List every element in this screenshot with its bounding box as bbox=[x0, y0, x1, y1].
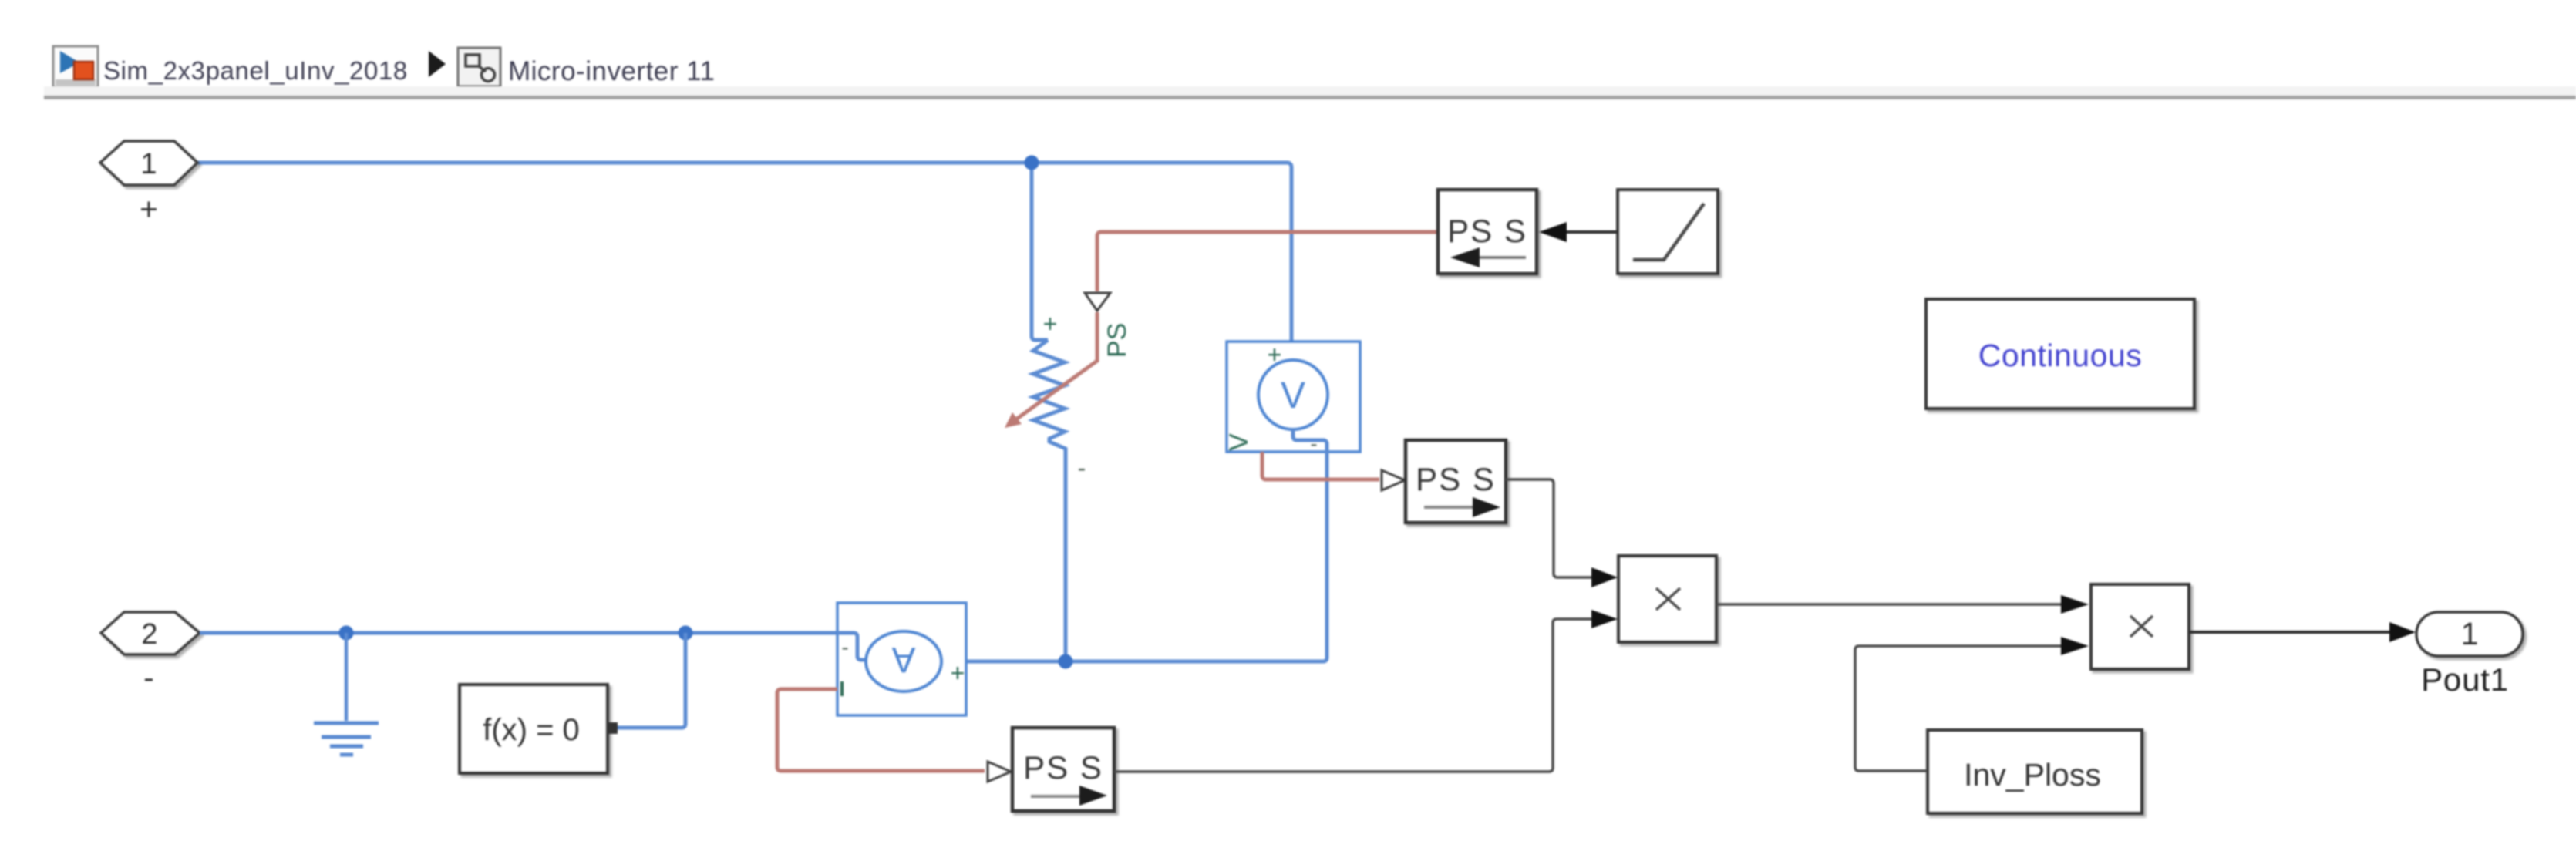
svg-text:-: - bbox=[1078, 454, 1086, 482]
svg-text:V: V bbox=[1224, 433, 1254, 451]
voltage sensor dial bbox=[1258, 360, 1328, 429]
solver block Continuous bbox=[1926, 299, 2194, 409]
wire: I measurement physical signal to PS-S converter 3 (red) bbox=[777, 689, 985, 771]
svg-text:PS: PS bbox=[1103, 323, 1132, 358]
inport 2 bbox=[101, 612, 200, 654]
voltage sensor U1 (block) bbox=[1227, 342, 1360, 452]
resistor R (variable, blue zigzag) bbox=[1033, 340, 1066, 660]
wire: control line into resistor wiper (red diagonal arrow) bbox=[1014, 312, 1097, 421]
wire: sensor - terminal down to bottom net (blue) bbox=[942, 429, 1327, 661]
svg-text:Inv_Ploss: Inv_Ploss bbox=[1964, 757, 2101, 792]
wire: saturation output into converter (black, arrow left) bbox=[1567, 230, 1618, 234]
PS-S converter 1 (top, Simulink to physical signal) bbox=[1438, 190, 1537, 274]
wire: Inv_Ploss output up to product2 input 2 (grey) bbox=[1855, 646, 2061, 771]
svg-text:2: 2 bbox=[141, 618, 157, 651]
svg-text:Sim_2x3panel_uInv_2018: Sim_2x3panel_uInv_2018 bbox=[103, 56, 408, 85]
wire: voltage signal to product block input 1 (grey) bbox=[1506, 479, 1591, 577]
wire: physical signal from PS-S converter to resistor control (red) bbox=[1097, 232, 1438, 291]
breadcrumb model icon bbox=[53, 46, 98, 87]
svg-text:PS S: PS S bbox=[1416, 461, 1496, 497]
saturation block bbox=[1618, 190, 1718, 274]
svg-text:PS S: PS S bbox=[1023, 749, 1103, 786]
svg-text:+: + bbox=[140, 191, 158, 227]
wire: solver to bottom net (blue) bbox=[618, 633, 685, 728]
wire: top electrical net from Inport 1 to voltage sensor (blue) bbox=[197, 163, 1291, 360]
wire: product1 output to product2 input 1 (grey) bbox=[1716, 603, 2061, 606]
svg-text:1: 1 bbox=[2461, 616, 2479, 651]
node: junction to ground bbox=[339, 626, 354, 641]
inport 1 bbox=[100, 141, 197, 185]
svg-text:Micro-inverter 11: Micro-inverter 11 bbox=[508, 56, 715, 86]
svg-text:Continuous: Continuous bbox=[1978, 338, 2142, 373]
svg-text:-: - bbox=[1310, 432, 1317, 456]
outport 1 bbox=[2416, 612, 2523, 656]
pin: PS input arrow of PS-S converter 2 (open triangle) bbox=[1382, 470, 1405, 490]
wire: V measurement physical signal to PS-S converter (red) bbox=[1262, 452, 1379, 479]
node: junction to solver bbox=[679, 626, 693, 641]
svg-text:V: V bbox=[1281, 375, 1305, 416]
wire: product2 output to outport (grey) bbox=[2189, 631, 2389, 634]
svg-text:-: - bbox=[841, 635, 848, 659]
svg-text:+: + bbox=[951, 659, 965, 687]
node: junction resistor/bottom net bbox=[1059, 654, 1073, 669]
PS-S converter 2 (voltage) bbox=[1406, 440, 1506, 523]
node: junction on top net bbox=[1025, 156, 1039, 170]
svg-text:+: + bbox=[1043, 310, 1058, 338]
current sensor dial bbox=[866, 631, 941, 691]
ground bbox=[314, 633, 379, 755]
wire: bottom electrical net from Inport 2 to current sensor (blue) bbox=[200, 631, 837, 635]
pin: PS input arrow of PS-S converter 3 (open triangle) bbox=[988, 762, 1011, 782]
svg-text:I: I bbox=[839, 677, 845, 701]
solver configuration block f(x)=0 bbox=[460, 685, 608, 773]
breadcrumb subsystem icon bbox=[458, 48, 500, 86]
svg-text:-: - bbox=[143, 660, 154, 695]
svg-text:Pout1: Pout1 bbox=[2421, 661, 2509, 698]
breadcrumb separator arrow bbox=[429, 51, 446, 77]
wire: branch down to variable resistor + terminal bbox=[1032, 163, 1048, 340]
current sensor U2 (block) bbox=[837, 603, 966, 715]
product block 1 bbox=[1618, 556, 1716, 642]
toolbar divider bbox=[44, 86, 2576, 96]
product block 2 bbox=[2091, 584, 2189, 669]
gain block Inv_Ploss bbox=[1928, 730, 2142, 813]
wire: current signal to product block input 2 (grey) bbox=[1114, 619, 1591, 772]
pin: PS input arrow on resistor control line (open triangle) bbox=[1085, 293, 1110, 311]
svg-text:1: 1 bbox=[140, 148, 157, 180]
wire: entry jog inside current sensor (blue) bbox=[837, 633, 873, 660]
svg-text:PS S: PS S bbox=[1447, 213, 1527, 249]
svg-text:f(x) = 0: f(x) = 0 bbox=[483, 713, 580, 747]
PS-S converter 3 (current) bbox=[1012, 728, 1114, 811]
svg-text:A: A bbox=[891, 640, 915, 680]
